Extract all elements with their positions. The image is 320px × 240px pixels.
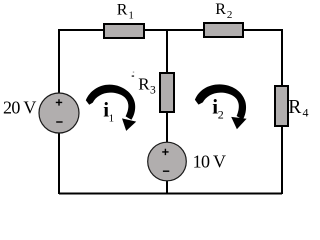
svg-text:1: 1 (128, 10, 134, 22)
svg-text:4: 4 (303, 106, 309, 120)
svg-text:2: 2 (218, 107, 224, 121)
svg-text:10 V: 10 V (193, 151, 226, 171)
svg-text:R: R (288, 97, 301, 118)
svg-text:1: 1 (109, 112, 115, 124)
svg-text:R: R (215, 1, 226, 18)
svg-text:2: 2 (227, 9, 233, 21)
svg-text:R: R (117, 1, 128, 18)
svg-text:20 V: 20 V (3, 97, 36, 117)
svg-text:3: 3 (150, 84, 156, 96)
svg-text:R: R (138, 74, 150, 93)
